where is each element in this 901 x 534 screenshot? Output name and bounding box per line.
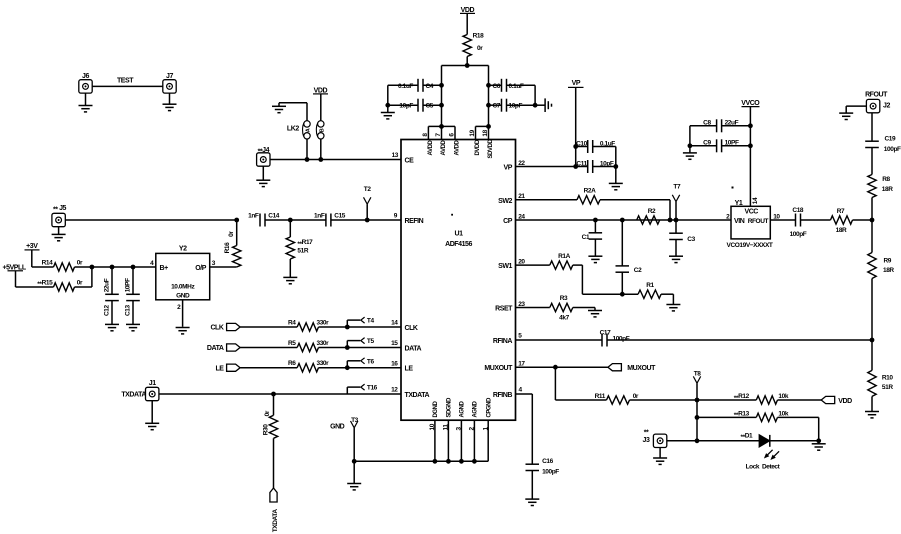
ground at C11	[615, 167, 617, 184]
svg-text:0.1uF: 0.1uF	[509, 83, 524, 90]
pin 18 SDVDD stem	[488, 126, 490, 139]
ground at C3	[675, 240, 677, 257]
ground at C16	[531, 471, 533, 500]
svg-text:B+: B+	[160, 265, 169, 272]
bottom pin 10 DGND	[434, 420, 436, 461]
svg-text:GND: GND	[330, 423, 345, 430]
svg-text:CPGND: CPGND	[487, 397, 493, 418]
svg-text:B: B	[319, 128, 325, 132]
svg-text:C19: C19	[885, 136, 897, 143]
ground at J2	[846, 105, 866, 107]
svg-text:22uF: 22uF	[725, 119, 739, 126]
oscillator Y2	[156, 253, 210, 299]
capacitor C12	[111, 267, 113, 294]
svg-text:VCO19V−XXXXT: VCO19V−XXXXT	[727, 242, 773, 249]
ground at R10	[871, 396, 873, 411]
capacitor C13	[132, 267, 134, 294]
svg-text:LE: LE	[405, 366, 414, 373]
svg-text:**R17: **R17	[297, 239, 313, 248]
wire R7 to RFOUT bus	[853, 219, 873, 221]
svg-text:18R: 18R	[836, 227, 847, 234]
svg-text:R11: R11	[595, 393, 606, 400]
svg-text:0r: 0r	[633, 393, 639, 400]
ground at Y2	[176, 327, 190, 329]
svg-text:10: 10	[429, 423, 436, 430]
ground at J4	[262, 166, 264, 180]
resistor R30	[273, 394, 275, 415]
wire R2A to CP node	[600, 199, 670, 201]
ground at T3 bus	[353, 461, 355, 483]
svg-text:C5: C5	[426, 103, 434, 110]
pin 8 AVDD stem	[427, 126, 429, 139]
wire C4/C5 left rail	[388, 84, 418, 86]
svg-text:51R: 51R	[297, 248, 308, 255]
svg-text:R2: R2	[648, 208, 656, 215]
capacitor C19	[865, 140, 879, 142]
capacitor C1	[594, 220, 596, 233]
ground at C5	[387, 105, 389, 112]
capacitor C3	[675, 220, 677, 233]
ground at C1	[594, 239, 596, 256]
pin 19 DVDD stem	[475, 126, 477, 139]
pin 2 GND of Y2	[182, 300, 184, 327]
IC U1 ADF4156 body	[401, 140, 516, 421]
svg-text:14: 14	[752, 197, 759, 204]
resistor R17	[289, 220, 291, 237]
ground at C12	[111, 301, 113, 325]
svg-text:R10: R10	[882, 375, 894, 382]
svg-text:C18: C18	[792, 207, 804, 214]
svg-text:R14: R14	[42, 260, 54, 267]
svg-text:R5: R5	[288, 340, 296, 347]
svg-text:J3: J3	[643, 437, 650, 444]
svg-text:SW2: SW2	[498, 198, 512, 205]
svg-text:RFOUT: RFOUT	[865, 92, 888, 99]
svg-text:T6: T6	[367, 358, 375, 365]
svg-text:REFIN: REFIN	[405, 218, 424, 225]
pin 7 AVDD stem	[441, 126, 443, 139]
resistor R12	[697, 399, 756, 401]
svg-text:9: 9	[394, 212, 398, 219]
svg-text:R4: R4	[288, 320, 296, 327]
wire R3 to ground	[573, 307, 595, 309]
ground at LK2 pin A	[306, 103, 308, 121]
svg-text:CLK: CLK	[210, 325, 223, 332]
svg-text:CLK: CLK	[405, 325, 418, 332]
svg-text:10k: 10k	[778, 410, 788, 417]
wire R5 to DATA pin	[319, 347, 402, 349]
ground sideways at C7	[544, 98, 546, 112]
svg-text:SW1: SW1	[498, 263, 512, 270]
resistor R8	[868, 175, 876, 198]
svg-text:**: **	[644, 429, 649, 436]
svg-text:SDGND: SDGND	[447, 397, 453, 418]
wire T8 node to J3 row	[696, 417, 698, 440]
wire R7 node to R9	[871, 220, 873, 253]
wire R6 to LE pin	[319, 367, 402, 369]
svg-text:AGND: AGND	[460, 401, 466, 418]
svg-text:Lock Detect: Lock Detect	[746, 464, 781, 471]
svg-text:18R: 18R	[883, 267, 894, 274]
svg-text:R1A: R1A	[558, 253, 571, 260]
svg-text:C7: C7	[492, 103, 500, 110]
power flag VDD right	[821, 396, 835, 403]
svg-text:10PF: 10PF	[725, 139, 739, 146]
svg-text:VDD: VDD	[838, 398, 852, 405]
wire J2 to C19	[871, 113, 873, 141]
bottom pin 1 CPGND	[487, 420, 489, 461]
svg-text:4: 4	[519, 387, 523, 394]
svg-text:MUXOUT: MUXOUT	[484, 365, 513, 372]
wire MUXOUT to R11	[554, 367, 556, 400]
svg-text:0.1uF: 0.1uF	[398, 83, 413, 90]
svg-text:R18: R18	[473, 32, 485, 39]
svg-text:18R: 18R	[882, 186, 893, 193]
wire CE net	[270, 159, 401, 161]
svg-text:VIN: VIN	[734, 218, 745, 225]
svg-text:R9: R9	[884, 258, 892, 265]
ground at C13	[132, 301, 134, 325]
svg-text:R2A: R2A	[584, 188, 597, 195]
wire R9 to RFINA node	[871, 279, 873, 341]
svg-text:DATA: DATA	[207, 345, 224, 352]
svg-text:C16: C16	[542, 458, 554, 465]
wire R16 to REFIN	[236, 220, 238, 246]
svg-text:CE: CE	[405, 157, 415, 164]
test point T6	[346, 361, 348, 368]
svg-text:T16: T16	[367, 385, 378, 392]
wire R11 to T8 node	[630, 399, 698, 401]
wire C6/C7 right rail	[507, 84, 536, 86]
svg-text:R1: R1	[646, 282, 654, 289]
test point T16	[346, 387, 348, 394]
svg-text:10.0MHz: 10.0MHz	[171, 283, 195, 290]
ground at C9	[689, 146, 691, 153]
svg-text:330r: 330r	[317, 320, 330, 327]
svg-text:T4: T4	[367, 318, 375, 325]
svg-text:16: 16	[391, 360, 398, 367]
svg-text:DATA: DATA	[405, 345, 422, 352]
ground at R3	[588, 310, 602, 312]
ground at D1	[818, 441, 820, 444]
svg-text:TXDATA: TXDATA	[272, 509, 279, 533]
svg-text:T7: T7	[673, 183, 681, 190]
svg-text:R7: R7	[837, 208, 845, 215]
test point T5	[346, 341, 348, 348]
svg-text:R6: R6	[288, 360, 296, 367]
wire LK2-B to CE	[320, 139, 322, 159]
wire R1 to ground	[661, 293, 673, 295]
svg-text:C2: C2	[634, 267, 642, 274]
svg-text:VCC: VCC	[744, 208, 758, 215]
svg-text:SDVDD: SDVDD	[488, 139, 494, 159]
svg-text:C14: C14	[268, 212, 280, 219]
svg-text:18: 18	[482, 129, 489, 136]
node C2 top	[620, 218, 625, 223]
svg-text:100pF: 100pF	[790, 231, 807, 238]
svg-text:U1: U1	[454, 231, 463, 238]
svg-text:AVDD: AVDD	[441, 140, 447, 156]
svg-text:J1: J1	[149, 380, 156, 387]
jumper LK2 pos A	[303, 121, 306, 139]
svg-text:22uF: 22uF	[104, 278, 111, 292]
wire LK2-A to CE	[306, 139, 308, 159]
svg-text:RFINB: RFINB	[493, 392, 513, 399]
svg-text:0r: 0r	[477, 45, 483, 52]
resistor R9	[868, 253, 876, 279]
svg-text:TXDATA: TXDATA	[121, 392, 146, 399]
wire TEST net J6-J7	[86, 85, 170, 87]
svg-text:100pF: 100pF	[884, 146, 901, 153]
svg-text:T2: T2	[364, 186, 372, 193]
svg-text:100pF: 100pF	[542, 469, 559, 476]
wire RFINA node to R10	[871, 340, 873, 370]
wire C10/C11 right rail	[593, 146, 616, 148]
wire C17 to RFOUT bus	[607, 339, 872, 341]
svg-text:10pF: 10pF	[399, 103, 413, 110]
bottom pin 2 AGND	[473, 420, 475, 461]
ground at J3	[659, 448, 661, 459]
svg-text:LK2: LK2	[287, 126, 299, 133]
svg-text:13: 13	[392, 152, 399, 159]
node C14-R17	[265, 219, 326, 221]
wire C2 to R1 node	[621, 272, 623, 294]
resistor R16	[233, 246, 241, 268]
resistor R10	[868, 370, 876, 396]
pin 6 AVDD stem	[454, 126, 456, 139]
svg-text:1nF: 1nF	[248, 212, 259, 219]
wire R14/R15 junction	[75, 266, 92, 268]
output flag MUXOUT	[608, 364, 622, 371]
svg-text:330r: 330r	[317, 360, 330, 367]
wire RFINB to C16	[516, 393, 533, 395]
connector J3	[653, 434, 666, 447]
svg-text:4k7: 4k7	[559, 315, 569, 322]
wire C19 to R8	[871, 148, 873, 175]
svg-text:CP: CP	[503, 218, 513, 225]
svg-text:C4: C4	[426, 83, 434, 90]
asterisk near Y1	[732, 187, 734, 189]
svg-text:J7: J7	[166, 73, 173, 80]
svg-text:10PF: 10PF	[125, 278, 132, 292]
svg-text:A: A	[306, 128, 312, 132]
svg-text:TEST: TEST	[117, 77, 134, 84]
svg-text:AGND: AGND	[473, 401, 479, 418]
svg-text:C12: C12	[104, 304, 111, 316]
ground at R17	[289, 259, 291, 277]
svg-text:100pF: 100pF	[613, 335, 630, 342]
svg-text:DGND: DGND	[433, 401, 439, 418]
wire J3 node to D1	[697, 440, 759, 442]
svg-text:VP: VP	[572, 80, 581, 87]
wire TXDATA net	[159, 393, 401, 395]
wire R30 to TXDATA flag	[273, 438, 275, 488]
wire R4 to CLK pin	[319, 326, 402, 328]
jumper LK2 pos B	[316, 121, 319, 139]
svg-text:R3: R3	[560, 295, 568, 302]
wire D1 cathode to ground node	[770, 440, 819, 442]
svg-text:AVDD: AVDD	[428, 140, 434, 156]
svg-text:J2: J2	[883, 103, 890, 110]
svg-text:15: 15	[391, 340, 398, 347]
svg-text:11: 11	[443, 424, 450, 431]
svg-text:0r: 0r	[228, 231, 235, 237]
svg-text:4: 4	[150, 260, 154, 267]
wire T8 node to R13	[696, 400, 698, 417]
svg-text:10k: 10k	[778, 393, 788, 400]
wire C8/C9 left rail	[690, 125, 717, 127]
svg-text:ADF4156: ADF4156	[445, 241, 472, 248]
svg-text:Y2: Y2	[179, 245, 187, 252]
LED arrows	[767, 450, 773, 456]
wire C15 to REFIN pin	[331, 219, 401, 221]
svg-text:C6: C6	[492, 83, 500, 90]
svg-text:C13: C13	[125, 304, 132, 316]
svg-text:TXDATA: TXDATA	[405, 392, 430, 399]
svg-text:C3: C3	[687, 236, 695, 243]
svg-text:RFOUT: RFOUT	[748, 218, 769, 225]
svg-text:RFINA: RFINA	[493, 338, 513, 345]
svg-text:C1: C1	[582, 234, 590, 241]
svg-text:J6: J6	[82, 73, 89, 80]
svg-text:1nF: 1nF	[314, 212, 325, 219]
svg-text:0r: 0r	[77, 260, 83, 267]
test point T4	[346, 320, 348, 327]
svg-text:DVDD: DVDD	[475, 139, 481, 155]
svg-text:19: 19	[469, 129, 476, 136]
svg-text:C15: C15	[334, 212, 346, 219]
svg-text:5: 5	[518, 333, 522, 340]
svg-text:AVDD: AVDD	[455, 140, 461, 156]
capacitor C16	[526, 463, 540, 465]
output flag TXDATA bottom	[270, 488, 277, 502]
svg-text:0r: 0r	[77, 280, 83, 287]
svg-text:21: 21	[518, 193, 525, 200]
svg-text:O/P: O/P	[195, 265, 206, 272]
svg-text:51R: 51R	[882, 384, 893, 391]
svg-text:GND: GND	[176, 293, 190, 300]
ground at J6	[85, 93, 87, 105]
svg-text:0r: 0r	[264, 410, 271, 416]
svg-text:R8: R8	[882, 176, 890, 183]
ground at R1	[666, 304, 680, 306]
wire R1A to C2 node	[573, 264, 583, 266]
svg-text:RSET: RSET	[495, 305, 513, 312]
wire ground bus	[354, 460, 488, 462]
svg-text:10pF: 10pF	[509, 103, 523, 110]
node C1	[593, 218, 598, 223]
wire R18 to AVDD/DVDD rails	[466, 57, 468, 66]
ground at J5	[58, 227, 60, 235]
wire R13 to D1 cathode node	[778, 416, 819, 418]
svg-text:** J5: ** J5	[53, 205, 67, 214]
capacitor C2	[621, 220, 623, 266]
svg-text:R30: R30	[263, 424, 270, 436]
svg-text:LE: LE	[215, 365, 224, 372]
bottom pin 11 SDGND	[447, 420, 449, 461]
svg-text:3: 3	[212, 260, 216, 267]
bottom pin 3 AGND	[460, 420, 462, 461]
resistor R18	[463, 35, 471, 57]
svg-text:+3V: +3V	[26, 243, 38, 250]
svg-text:12: 12	[391, 387, 398, 394]
svg-text:2: 2	[177, 304, 181, 311]
svg-text:14: 14	[391, 320, 398, 327]
svg-text:330r: 330r	[317, 340, 330, 347]
connector J2	[866, 99, 879, 112]
wire C18 to R7	[801, 219, 831, 221]
svg-text:R16: R16	[224, 242, 231, 254]
ground at J1	[151, 401, 153, 424]
svg-text:MUXOUT: MUXOUT	[627, 365, 656, 372]
svg-text:**D1: **D1	[741, 433, 754, 442]
svg-text:T5: T5	[367, 338, 375, 345]
wire R8 to R7 node	[871, 198, 873, 221]
svg-text:VP: VP	[504, 164, 513, 171]
ground at J7	[169, 93, 171, 104]
